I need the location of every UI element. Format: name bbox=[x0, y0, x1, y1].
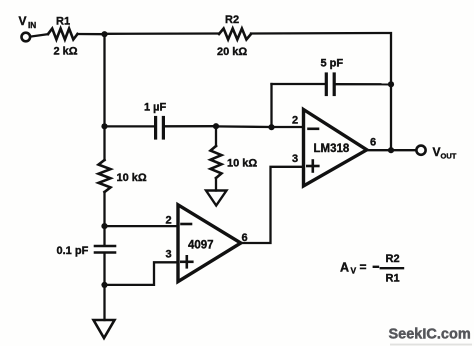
svg-text:OUT: OUT bbox=[441, 152, 457, 161]
node A junction dot bbox=[101, 31, 107, 37]
svg-text:4097: 4097 bbox=[188, 240, 214, 252]
minus sign U1 pin2 bbox=[309, 128, 319, 131]
wire U1 output to VOUT bbox=[367, 149, 416, 151]
svg-text:V: V bbox=[351, 266, 357, 276]
resistor R2 bbox=[219, 29, 251, 40]
minus sign U2 pin2 bbox=[182, 223, 192, 226]
wire capacitor C1 to node E bbox=[103, 254, 105, 285]
wire left branch vertical from node A bbox=[103, 34, 105, 126]
svg-text:10 kΩ: 10 kΩ bbox=[227, 158, 257, 170]
wire feedback horizontal left of C 5pF bbox=[272, 83, 327, 85]
node output junction dot bbox=[388, 147, 394, 153]
capacitor C1 0.1pF bbox=[95, 246, 115, 253]
svg-text:A: A bbox=[340, 261, 349, 275]
node feedback junction dot bbox=[388, 81, 394, 87]
plus sign U1 pin3 bbox=[307, 161, 318, 172]
svg-text:IN: IN bbox=[28, 21, 36, 30]
svg-text:1 µF: 1 µF bbox=[144, 102, 167, 114]
wire R1 to node A bbox=[78, 33, 105, 36]
label VOUT bbox=[433, 145, 457, 161]
node pin2 LM318 junction dot bbox=[268, 124, 274, 130]
plus sign U2 pin3 bbox=[181, 256, 192, 267]
svg-text:2 kΩ: 2 kΩ bbox=[54, 46, 78, 58]
svg-text:2: 2 bbox=[166, 215, 172, 227]
wire A2 output to riser bbox=[241, 167, 304, 243]
node C junction dot bbox=[213, 123, 219, 129]
node E junction dot bbox=[101, 282, 107, 288]
resistor R1 bbox=[48, 29, 78, 40]
resistor R3 10k left bbox=[99, 126, 111, 226]
wire node B to C 1uF bbox=[105, 125, 156, 127]
svg-text:R2: R2 bbox=[386, 253, 400, 265]
op-amp U1 LM318 bbox=[304, 110, 367, 187]
scan smudge under watermark bbox=[390, 344, 472, 346]
output terminal VOUT bbox=[416, 146, 425, 155]
wire feedback horizontal right of C 5pF bbox=[334, 83, 391, 85]
op-amp U2 4097 bbox=[178, 205, 241, 282]
svg-text:20 kΩ: 20 kΩ bbox=[217, 46, 247, 58]
input terminal VIN bbox=[22, 33, 31, 42]
node D junction dot bbox=[101, 223, 107, 229]
wire node D to A2 pin 2 bbox=[105, 225, 179, 227]
wire node E jog to A2 pin 3 bbox=[105, 262, 179, 285]
svg-text:3: 3 bbox=[292, 153, 298, 165]
svg-text:R1: R1 bbox=[56, 16, 70, 28]
svg-text:5 pF: 5 pF bbox=[321, 58, 344, 70]
wire feedback branch left vertical bbox=[270, 84, 272, 127]
svg-text:2: 2 bbox=[292, 115, 298, 127]
svg-text:3: 3 bbox=[166, 249, 172, 261]
svg-text:R1: R1 bbox=[386, 273, 400, 285]
wire node D to capacitor C1 bbox=[103, 226, 105, 244]
wire node C to node pin2 to LM318 pin 2 bbox=[216, 125, 304, 128]
svg-text:SeekIC.com: SeekIC.com bbox=[389, 327, 471, 343]
svg-text:LM318: LM318 bbox=[314, 143, 350, 155]
svg-text:0.1 pF: 0.1 pF bbox=[57, 245, 89, 257]
capacitor C 5pF bbox=[326, 74, 334, 95]
capacitor C 1uF bbox=[156, 118, 164, 139]
formula Av = -R2/R1 bbox=[340, 253, 403, 285]
svg-text:V: V bbox=[433, 145, 441, 159]
svg-text:=: = bbox=[360, 260, 367, 274]
wire node E down bbox=[103, 285, 105, 320]
wire C 1uF to node C bbox=[163, 125, 216, 127]
resistor R4 10k shunt bbox=[211, 126, 222, 190]
wire input to R1 bbox=[30, 34, 48, 36]
svg-text:10 kΩ: 10 kΩ bbox=[117, 172, 147, 184]
label VIN bbox=[19, 14, 37, 30]
svg-text:V: V bbox=[19, 14, 27, 28]
ground bottom left bbox=[94, 320, 115, 338]
wire R2 to right corner and down to output node bbox=[251, 33, 391, 150]
ground under R4 bbox=[206, 191, 227, 206]
wire node A to R2 bbox=[105, 32, 220, 35]
node B junction dot bbox=[101, 123, 107, 129]
svg-text:R2: R2 bbox=[225, 14, 239, 26]
svg-text:6: 6 bbox=[370, 137, 376, 149]
